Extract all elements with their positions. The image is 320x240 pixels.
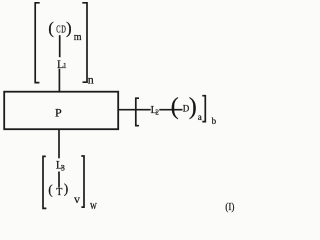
svg-text:n: n	[88, 72, 94, 86]
svg-text:): )	[64, 181, 68, 196]
svg-text:1: 1	[63, 62, 67, 70]
svg-text:2: 2	[155, 108, 159, 117]
svg-text:): )	[66, 19, 72, 38]
svg-text:(: (	[171, 94, 179, 120]
svg-text:(I): (I)	[225, 201, 234, 213]
svg-text:(: (	[48, 182, 53, 197]
svg-text:(: (	[48, 19, 54, 38]
svg-text:m: m	[74, 32, 82, 43]
svg-text:D: D	[183, 104, 190, 114]
svg-text:P: P	[55, 105, 62, 119]
svg-text:b: b	[212, 116, 217, 126]
svg-text:v: v	[74, 192, 80, 206]
svg-text:a: a	[198, 112, 202, 122]
svg-text:T: T	[56, 187, 62, 198]
svg-text:3: 3	[61, 163, 65, 173]
svg-text:): )	[189, 94, 197, 120]
svg-text:C: C	[56, 25, 61, 36]
svg-text:w: w	[90, 197, 97, 212]
